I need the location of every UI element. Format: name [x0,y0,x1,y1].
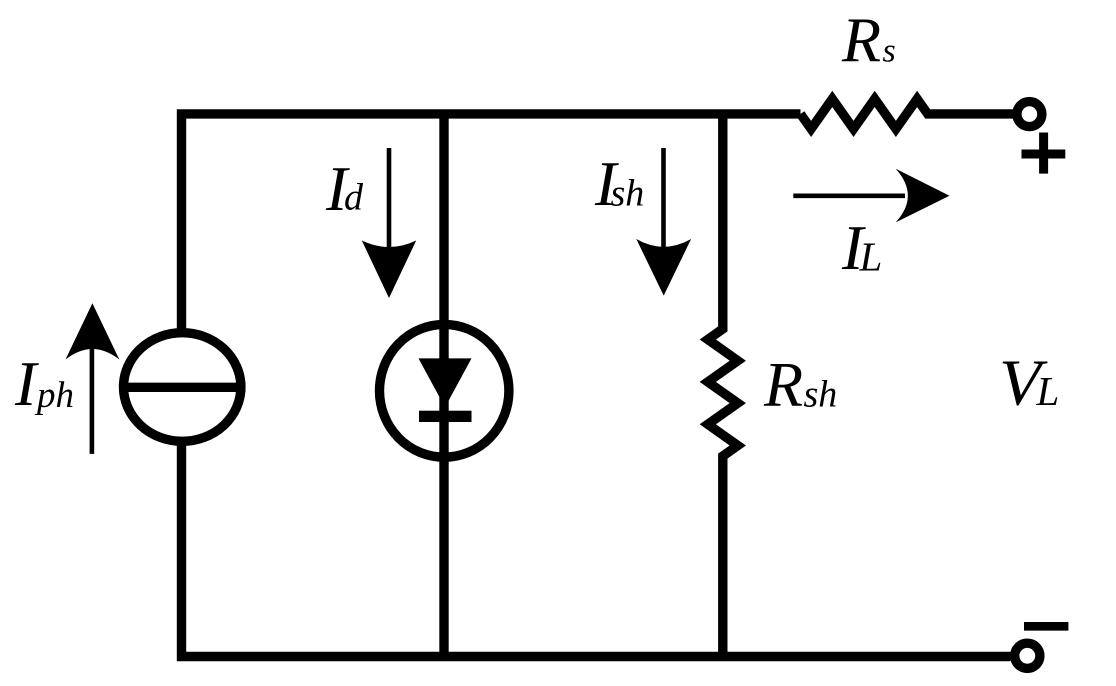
svg-text:sh: sh [804,374,838,416]
svg-text:d: d [344,177,364,219]
svg-text:L: L [859,234,883,280]
svg-text:ph: ph [34,375,74,416]
svg-text:sh: sh [611,173,645,215]
svg-text:I: I [14,348,39,419]
svg-text:s: s [883,33,896,70]
svg-text:R: R [763,349,803,420]
svg-text:R: R [841,5,881,76]
svg-text:L: L [1036,368,1060,414]
